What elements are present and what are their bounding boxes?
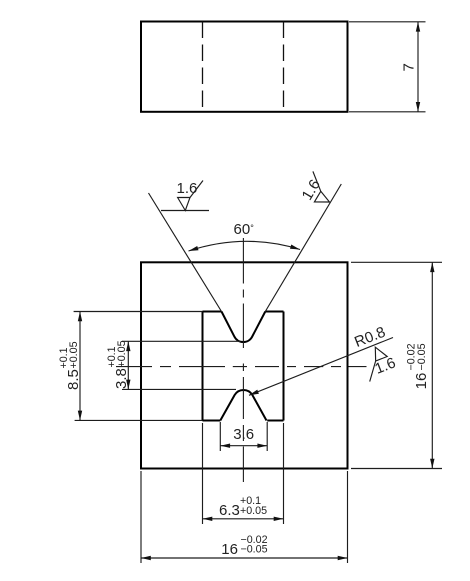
svg-text:−0.05: −0.05 xyxy=(416,343,428,370)
dimension line 7 xyxy=(417,22,419,112)
surface finish symbol right (on flank) xyxy=(300,171,339,208)
svg-text:3.6: 3.6 xyxy=(233,426,254,443)
svg-text:8.5: 8.5 xyxy=(65,369,82,390)
svg-text:−0.05: −0.05 xyxy=(241,544,268,556)
svg-text:+0.05: +0.05 xyxy=(240,505,267,517)
dim text 7 xyxy=(401,63,418,71)
60 degree arc xyxy=(189,241,301,251)
pocket bottom edge right segment xyxy=(267,420,283,422)
dim 3.8 extension bottom (bump top) xyxy=(122,388,236,390)
dim 16 bottom extension right xyxy=(347,471,349,563)
hidden line right xyxy=(283,22,285,112)
dim line 16 bottom xyxy=(141,557,348,559)
extension line bottom for dim 7 xyxy=(349,111,426,113)
leader R0.8 xyxy=(249,338,393,396)
svg-text:1.6: 1.6 xyxy=(177,180,198,197)
dim 16 right extension bottom xyxy=(351,468,442,470)
dim line 8.5 xyxy=(79,312,81,421)
main square outline xyxy=(141,262,348,468)
pocket top edge right segment xyxy=(265,311,283,313)
V flank thin extension right xyxy=(265,184,341,312)
top view outline xyxy=(141,22,348,112)
dim 6.3 extension left xyxy=(202,423,204,524)
vertical centerline xyxy=(242,238,244,482)
svg-text:16: 16 xyxy=(413,373,430,390)
extension line top for dim 7 xyxy=(349,21,426,23)
pocket top edge left segment xyxy=(203,311,222,313)
dim 3.6 extension right xyxy=(266,422,268,451)
svg-text:6.3: 6.3 xyxy=(219,502,240,519)
dim text 8.5 +0.1 +0.05 xyxy=(58,341,82,390)
surface finish symbol left xyxy=(161,210,209,212)
dim 3.6 extension left xyxy=(219,422,221,451)
dim line 3.8 xyxy=(127,341,129,389)
dim 8.5 extension top xyxy=(74,311,203,313)
dim line 6.3 xyxy=(203,518,284,520)
dim 8.5 extension bottom xyxy=(75,419,203,421)
dim line 3.6 xyxy=(220,445,267,447)
svg-text:7: 7 xyxy=(401,63,418,71)
dim text 3.8 +0.1 +0.05 xyxy=(106,340,130,389)
svg-text:16: 16 xyxy=(221,541,238,558)
svg-text:+0.05: +0.05 xyxy=(116,340,128,367)
dim text 16 -0.02 -0.05 right xyxy=(406,343,430,389)
dim 16 right extension top xyxy=(351,261,442,263)
bump (ridge) thick profile xyxy=(220,390,266,421)
svg-text:3.8: 3.8 xyxy=(113,368,130,389)
pocket left edge xyxy=(202,312,204,421)
V flank thin extension left xyxy=(149,193,222,312)
horizontal centerline xyxy=(116,366,367,368)
pocket bottom edge left segment xyxy=(203,420,221,422)
svg-text:+0.05: +0.05 xyxy=(68,341,80,368)
dim 3.8 extension top (V bottom) xyxy=(122,340,240,342)
pocket right edge xyxy=(283,312,285,421)
dim 6.3 extension right xyxy=(283,423,285,524)
dim line 16 right xyxy=(431,262,433,468)
hidden line left xyxy=(202,22,204,112)
V-groove thick profile xyxy=(222,312,266,343)
dim 16 bottom extension left xyxy=(140,471,142,563)
